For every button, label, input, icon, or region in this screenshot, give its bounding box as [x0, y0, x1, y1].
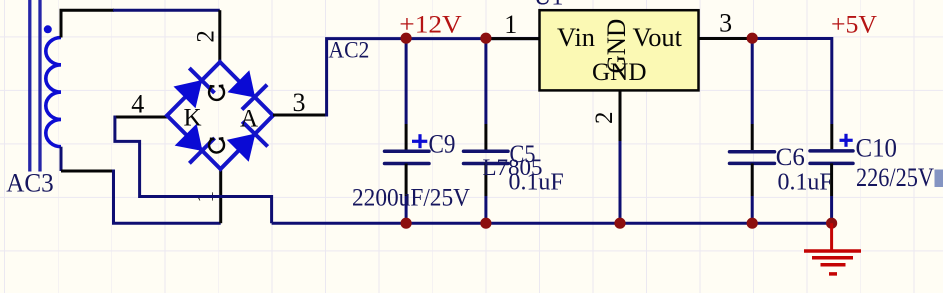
wire: pin2 to ground rail (navy) [619, 141, 622, 223]
wire: bridge pin 2 vertical (black) [218, 10, 221, 63]
regulator U1 body [540, 10, 699, 90]
junction dot rail/C6 [747, 218, 758, 229]
svg-text:0.1uF: 0.1uF [778, 170, 833, 196]
wire: regulator pin 1 (black) [486, 37, 541, 40]
wire: C9 to ground rail (navy) [405, 196, 408, 223]
wire: C6 to ground rail (navy) [751, 196, 754, 223]
wire: bottom-left step down (navy) [112, 171, 221, 223]
bridge AC mark bottom (open circle) [209, 138, 224, 152]
junction dot rail/C9 [401, 218, 412, 229]
wire: +5V rail (navy) [752, 39, 832, 125]
capacitor C6 plates [730, 152, 775, 164]
svg-text:C6: C6 [776, 144, 805, 171]
wire: regulator pin 2 (black) [619, 90, 622, 141]
wire: top rail to bridge (navy) [113, 9, 220, 12]
wire: C5 to ground rail (navy) [484, 196, 487, 223]
capacitor C9 plates [385, 151, 430, 163]
svg-text:3: 3 [293, 88, 306, 117]
wire: bridge pin 4 (black) [115, 116, 167, 119]
svg-text:GND: GND [592, 59, 647, 86]
capacitor C6 lead top (navy) [751, 39, 754, 125]
wire: C10 to ground rail (navy) [830, 196, 833, 223]
capacitor C5 lead top (navy) [484, 39, 487, 124]
capacitor C9 lead top (navy) [405, 39, 408, 124]
svg-text:+5V: +5V [831, 10, 878, 39]
ground symbol [804, 223, 861, 274]
diode top-left (triangle + bar) [174, 68, 215, 108]
svg-text:C9: C9 [429, 129, 456, 159]
svg-text:2: 2 [192, 30, 219, 43]
svg-text:226/25V: 226/25V [856, 162, 934, 192]
capacitor C9 polarity plus [412, 134, 427, 148]
junction dot +5V/C6 [747, 33, 758, 44]
junction dot rail/C5 [480, 218, 491, 229]
capacitor C5 bottom pin (black) [484, 164, 487, 197]
capacitor C10 plates [810, 151, 853, 164]
screen artifact: small blue-gray box at right edge [935, 170, 943, 188]
wire: pin3 riser to +12V rail (navy) [327, 39, 540, 117]
capacitor C6 bottom pin (black) [751, 163, 754, 196]
svg-text:1: 1 [504, 10, 517, 39]
svg-text:AC2: AC2 [328, 38, 369, 63]
svg-text:2: 2 [591, 112, 618, 125]
junction dot +12V/C9 [401, 33, 412, 44]
svg-text:U1: U1 [534, 0, 563, 11]
diode bottom-left (triangle + bar) [175, 124, 215, 164]
svg-text:2200uF/25V: 2200uF/25V [352, 183, 471, 212]
svg-text:A: A [240, 106, 258, 133]
diode bottom-right (triangle + bar) [227, 122, 268, 162]
capacitor C9 bottom pin (black) [405, 164, 408, 197]
wire: transformer top pin (black) [61, 10, 114, 37]
svg-text:Vout: Vout [633, 23, 683, 52]
svg-text:C10: C10 [856, 134, 898, 163]
wire: bridge pin 3 (black) [273, 114, 327, 117]
transformer AC3 core [30, 0, 40, 172]
wire: transformer bottom lead (navy) [60, 147, 63, 171]
wire: regulator pin 3 (black) [699, 37, 753, 40]
svg-text:K: K [184, 105, 202, 132]
svg-text:3: 3 [719, 9, 732, 38]
transformer AC3 secondary winding [46, 38, 61, 147]
bridge rectifier D1 diamond [167, 62, 273, 169]
wire: transformer bottom pin (black) [61, 170, 113, 173]
capacitor C10 polarity plus [840, 134, 853, 147]
svg-text:4: 4 [131, 90, 144, 119]
capacitor C10 bottom pin (black) [830, 163, 833, 196]
wire: pin4 staircase to ground rail (navy) [115, 117, 272, 223]
diode top-right (triangle + bar) [228, 70, 268, 109]
junction dot rail/ground [826, 218, 837, 229]
wire: bridge pin 1 vertical (black) [219, 167, 222, 223]
junction dot rail/pin2 [614, 218, 625, 229]
transformer polarity dot [44, 25, 52, 33]
svg-text:AC3: AC3 [6, 168, 54, 198]
svg-text:Vin: Vin [557, 23, 595, 52]
capacitor C5 plates [464, 151, 509, 163]
junction dot +12V/C5 [480, 33, 491, 44]
wire: bottom ground rail (navy) [272, 222, 832, 225]
bridge AC mark top (open circle) [209, 86, 224, 100]
svg-text:L7805: L7805 [483, 155, 543, 181]
